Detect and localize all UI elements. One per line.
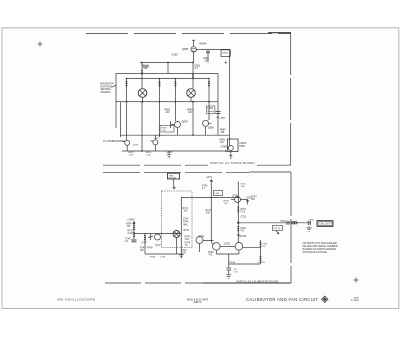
svg-text:R754: R754	[251, 197, 257, 199]
svg-text:CR690: CR690	[220, 146, 228, 148]
svg-text:Q673: Q673	[133, 144, 139, 146]
svg-text:2.2M: 2.2M	[128, 233, 133, 235]
svg-text:C683: C683	[172, 52, 179, 56]
svg-text:MOD 5 AUX DATA: MOD 5 AUX DATA	[187, 297, 209, 301]
svg-text:L745: L745	[214, 193, 220, 195]
svg-text:Q689: Q689	[208, 128, 214, 130]
svg-text:TP684: TP684	[222, 52, 229, 54]
svg-text:PARTIAL A5 CALIBRATOR BOARD: PARTIAL A5 CALIBRATOR BOARD	[237, 280, 279, 283]
svg-text:Q685: Q685	[182, 47, 189, 51]
svg-text:P760: P760	[309, 219, 315, 221]
svg-text:A&B: A&B	[354, 296, 359, 299]
svg-text:R748: R748	[147, 248, 153, 250]
svg-text:465 OSCILLOSCOPE: 465 OSCILLOSCOPE	[57, 298, 95, 302]
svg-text:ROTATION: ROTATION	[101, 85, 113, 88]
svg-text:C741: C741	[183, 219, 189, 221]
svg-text:R746: R746	[150, 257, 156, 259]
svg-text:TO J1064: TO J1064	[103, 141, 114, 143]
svg-text:MOTOR: MOTOR	[169, 178, 177, 180]
svg-text:PARTIAL A4 TIMING BOARD: PARTIAL A4 TIMING BOARD	[211, 161, 255, 165]
svg-text:1M: 1M	[127, 226, 130, 228]
svg-text:CAL OUT: CAL OUT	[319, 222, 331, 226]
svg-text:WINDING: WINDING	[101, 92, 111, 94]
svg-text:VOLTS: VOLTS	[274, 228, 282, 230]
svg-text:CR753: CR753	[239, 236, 247, 238]
svg-text:R684A: R684A	[200, 42, 207, 45]
svg-text:4.7: 4.7	[195, 66, 199, 70]
svg-text:P754: P754	[281, 221, 287, 223]
svg-text:R675: R675	[162, 127, 168, 129]
svg-text:+67V: +67V	[206, 175, 212, 179]
svg-text:BAL: BAL	[184, 224, 189, 227]
svg-text:C747: C747	[141, 243, 147, 245]
svg-text:R742: R742	[183, 222, 189, 224]
svg-text:+300V: +300V	[127, 218, 135, 222]
svg-text:Q687: Q687	[182, 120, 189, 124]
svg-text:SENSING: SENSING	[101, 89, 112, 91]
svg-text:P685: P685	[240, 146, 246, 148]
svg-text:Q677: Q677	[154, 138, 160, 140]
svg-text:WITH BLUE OUTLINE.: WITH BLUE OUTLINE.	[303, 251, 328, 254]
svg-text:R683: R683	[143, 65, 150, 69]
svg-text:Q760: Q760	[224, 244, 230, 246]
svg-text:L684: L684	[207, 106, 213, 110]
svg-text:B745: B745	[184, 230, 190, 232]
svg-text:FAN MOTOR: FAN MOTOR	[100, 83, 114, 86]
svg-text:Q747: Q747	[155, 245, 161, 247]
svg-text:Q741: Q741	[199, 236, 205, 238]
svg-text:CALIBRATOR AND FAN CIRCUIT: CALIBRATOR AND FAN CIRCUIT	[246, 297, 319, 302]
svg-text:R764B: R764B	[258, 262, 265, 264]
svg-text:.001: .001	[204, 60, 209, 62]
svg-text:FROM: FROM	[240, 143, 247, 145]
svg-text:C746: C746	[160, 257, 166, 259]
svg-text:(REF 6): (REF 6)	[194, 302, 202, 304]
svg-text:C751: C751	[241, 217, 247, 219]
svg-text:R764A: R764A	[228, 261, 235, 264]
svg-text:Q745: Q745	[232, 196, 238, 198]
svg-text:+15V: +15V	[219, 117, 225, 120]
svg-text:-150V: -150V	[166, 150, 173, 154]
svg-text:4.5mH: 4.5mH	[207, 111, 214, 113]
svg-text:JP 68/81: JP 68/81	[351, 300, 360, 302]
